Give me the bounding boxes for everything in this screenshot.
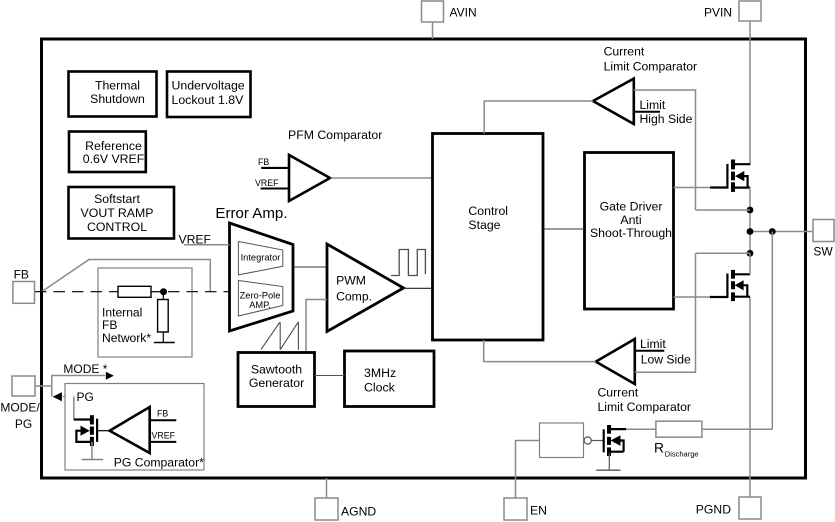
- waveform square wave: [391, 250, 425, 276]
- transistor PG MOSFET (mirrored): [74, 415, 97, 459]
- ground (internal FB): [154, 342, 175, 344]
- wire VREF to error amp: [184, 244, 230, 246]
- block Control Stage: [433, 134, 544, 341]
- wire gate driver to low-side gate: [674, 296, 713, 298]
- svg-text:Current: Current: [604, 45, 645, 59]
- wire discharge FET drain to resistor: [626, 428, 656, 430]
- svg-text:Softstart: Softstart: [94, 192, 140, 206]
- op-amp PG comparator: [110, 407, 150, 453]
- wire high-side source down to SW node: [749, 188, 751, 254]
- wire AVIN to boundary: [432, 22, 434, 39]
- svg-text:Limit Comparator: Limit Comparator: [598, 400, 691, 414]
- svg-text:PFM Comparator: PFM Comparator: [288, 128, 382, 142]
- wire PGND to low-side FET source: [749, 297, 751, 497]
- svg-text:Reference: Reference: [85, 139, 142, 153]
- pin AVIN: [422, 1, 477, 22]
- wire low-side comparator lower input from SW sense: [635, 253, 696, 372]
- svg-text:FB: FB: [14, 268, 29, 282]
- svg-text:R: R: [654, 441, 664, 456]
- wire SW node to pin: [750, 231, 813, 233]
- wire VREF input stub (PG): [150, 441, 177, 443]
- svg-text:FB: FB: [157, 409, 168, 419]
- svg-text:Comp.: Comp.: [336, 289, 372, 303]
- svg-text:Error Amp.: Error Amp.: [215, 205, 287, 222]
- block inverter (EN buffer): [540, 423, 584, 458]
- IC boundary: [42, 39, 806, 478]
- svg-text:VREF: VREF: [152, 431, 176, 441]
- pin FB: [13, 268, 35, 304]
- block Sawtooth Generator: [238, 353, 315, 407]
- svg-text:MODE/: MODE/: [0, 401, 40, 415]
- svg-text:VREF: VREF: [255, 178, 279, 188]
- op-amp high-side current limit comparator: [593, 79, 634, 124]
- svg-text:PGND: PGND: [696, 503, 731, 517]
- wire limit input stub: [634, 111, 660, 113]
- svg-text:Limit: Limit: [640, 98, 666, 112]
- wire low-side comparator output to control stage bottom: [484, 340, 596, 362]
- arrow PG (left): [53, 392, 62, 401]
- svg-text:CONTROL: CONTROL: [87, 220, 147, 234]
- svg-text:Discharge: Discharge: [665, 449, 699, 458]
- node FB divider junction: [160, 288, 167, 295]
- svg-text:SW: SW: [813, 244, 833, 258]
- wire error amp output to PWM comparator: [293, 266, 327, 268]
- pin AGND: [315, 498, 376, 520]
- wire PG drain riser (inside box): [73, 397, 75, 420]
- svg-text:Shutdown: Shutdown: [90, 92, 145, 106]
- wire low-side drain up to SW node: [749, 253, 751, 274]
- svg-text:3MHz: 3MHz: [364, 366, 396, 380]
- block Zero-Pole AMP: [238, 281, 282, 317]
- pin PVIN: [704, 1, 761, 21]
- ground (discharge FET): [596, 469, 620, 471]
- wire FB bypass around network: [42, 260, 210, 292]
- svg-text:Shoot-Through: Shoot-Through: [590, 226, 672, 240]
- svg-text:PG: PG: [15, 417, 32, 431]
- svg-text:Zero-Pole: Zero-Pole: [240, 291, 281, 301]
- wire SW node down to discharge resistor: [771, 232, 773, 430]
- wire VREF input stub: [261, 187, 289, 189]
- wire EN to inverter input: [516, 441, 540, 499]
- block Thermal Shutdown: [69, 72, 157, 117]
- svg-text:Limit: Limit: [640, 337, 666, 351]
- transistor low-side MOSFET: [710, 270, 750, 301]
- wire FB dashed line: [35, 291, 118, 293]
- svg-text:High Side: High Side: [640, 112, 693, 126]
- wire PVIN to high-side FET drain: [749, 21, 751, 165]
- block 3MHz Clock: [345, 351, 435, 407]
- svg-text:0.6V VREF: 0.6V VREF: [83, 152, 145, 166]
- node SW (junction dots): [747, 207, 754, 214]
- svg-text:Anti: Anti: [620, 213, 641, 227]
- wire PG branch to PG FET drain: [63, 397, 74, 420]
- inverter bubble: [584, 437, 591, 444]
- op-amp PFM comparator: [289, 155, 330, 201]
- svg-text:PVIN: PVIN: [704, 6, 732, 20]
- svg-text:VOUT RAMP: VOUT RAMP: [81, 206, 154, 220]
- wire MODE branch: [52, 376, 105, 397]
- wire gate driver to high-side gate: [674, 187, 713, 189]
- svg-text:Gate Driver: Gate Driver: [600, 200, 663, 214]
- block Gate Driver Anti Shoot-Through: [585, 153, 674, 310]
- arrow MODE (right): [106, 372, 114, 380]
- wire control stage to gate driver: [543, 228, 585, 230]
- wire PFM output to control stage: [330, 177, 433, 179]
- svg-text:Lockout 1.8V: Lockout 1.8V: [172, 93, 245, 107]
- pin MODE/PG: [0, 376, 40, 431]
- wire FB input stub: [261, 167, 289, 169]
- svg-text:Integrator: Integrator: [241, 253, 281, 263]
- svg-text:EN: EN: [530, 504, 547, 518]
- op-amp error amplifier: [230, 223, 294, 331]
- svg-text:Current: Current: [598, 385, 639, 399]
- resistor top (internal FB): [118, 286, 151, 297]
- svg-text:AVIN: AVIN: [450, 6, 477, 20]
- svg-text:Network*: Network*: [102, 331, 151, 345]
- svg-text:Limit Comparator: Limit Comparator: [604, 60, 697, 74]
- block Softstart VOUT RAMP CONTROL: [69, 187, 175, 239]
- op-amp low-side current limit comparator: [596, 339, 635, 384]
- wire SW sense to high-side comparator: [696, 209, 751, 211]
- pin SW: [813, 220, 834, 259]
- svg-text:PG: PG: [77, 390, 94, 404]
- resistor R_Discharge: [656, 421, 702, 437]
- svg-text:Undervoltage: Undervoltage: [172, 78, 245, 92]
- wire PWM output to control stage: [404, 287, 433, 289]
- svg-text:Generator: Generator: [249, 376, 304, 390]
- wire sawtooth generator to PWM comparator input: [306, 300, 327, 353]
- svg-text:Control: Control: [468, 204, 508, 218]
- wire MODE/PG pin to riser: [35, 385, 52, 387]
- svg-text:FB: FB: [258, 157, 269, 167]
- pin PGND: [696, 497, 761, 519]
- waveform sawtooth: [261, 322, 298, 350]
- svg-text:AMP.: AMP.: [249, 300, 271, 310]
- pin EN: [504, 498, 547, 520]
- wire resistor to SW sense line: [702, 428, 772, 430]
- svg-text:Thermal: Thermal: [95, 79, 140, 93]
- transistor high-side MOSFET: [710, 160, 750, 192]
- resistor bottom (internal FB): [162, 292, 164, 300]
- svg-text:PWM: PWM: [336, 273, 366, 287]
- svg-text:MODE *: MODE *: [63, 362, 107, 376]
- wire sawtooth generator to clock: [315, 375, 345, 377]
- block Integrator: [238, 242, 282, 275]
- block Reference 0.6V VREF: [69, 132, 146, 173]
- block internal FB network (outer): [98, 268, 192, 357]
- wire PG comparator output to PG FET gate: [97, 430, 110, 432]
- wire bubble to discharge FET gate: [591, 440, 603, 442]
- wire AGND to boundary: [326, 478, 328, 498]
- block Undervoltage Lockout 1.8V: [167, 72, 251, 118]
- svg-text:Clock: Clock: [364, 380, 396, 394]
- wire high-side comparator upper input from SW sense: [634, 90, 696, 210]
- wire high-side comparator output to control stage: [484, 101, 593, 134]
- block PG comparator (outer): [65, 384, 204, 471]
- wire SW sense to low-side comparator: [696, 252, 751, 254]
- svg-text:PG Comparator*: PG Comparator*: [114, 456, 204, 470]
- wire limit input stub (low side): [635, 350, 665, 352]
- svg-text:Stage: Stage: [468, 218, 500, 232]
- op-amp PWM comparator: [327, 244, 404, 332]
- wire FB input stub (PG): [150, 419, 177, 421]
- svg-text:AGND: AGND: [341, 505, 376, 519]
- svg-text:Sawtooth: Sawtooth: [251, 362, 302, 376]
- svg-text:Low Side: Low Side: [641, 353, 691, 367]
- ground (PG FET): [82, 459, 104, 461]
- transistor discharge MOSFET: [604, 425, 626, 470]
